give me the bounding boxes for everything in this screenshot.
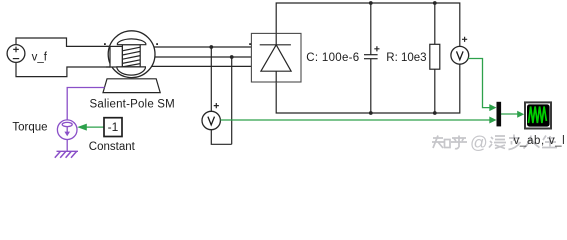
svg-text:Torque: Torque: [12, 122, 47, 134]
svg-text:Constant: Constant: [89, 141, 136, 153]
svg-text:R: 10e3: R: 10e3: [386, 52, 426, 64]
svg-text:-1: -1: [108, 120, 119, 134]
svg-text:Salient-Pole SM: Salient-Pole SM: [90, 99, 175, 111]
svg-text:v_ab, v_l: v_ab, v_l: [514, 135, 566, 147]
svg-text:@: @: [470, 133, 488, 153]
svg-text:v_f: v_f: [32, 51, 48, 63]
svg-text:C: 100e-6: C: 100e-6: [306, 52, 359, 64]
